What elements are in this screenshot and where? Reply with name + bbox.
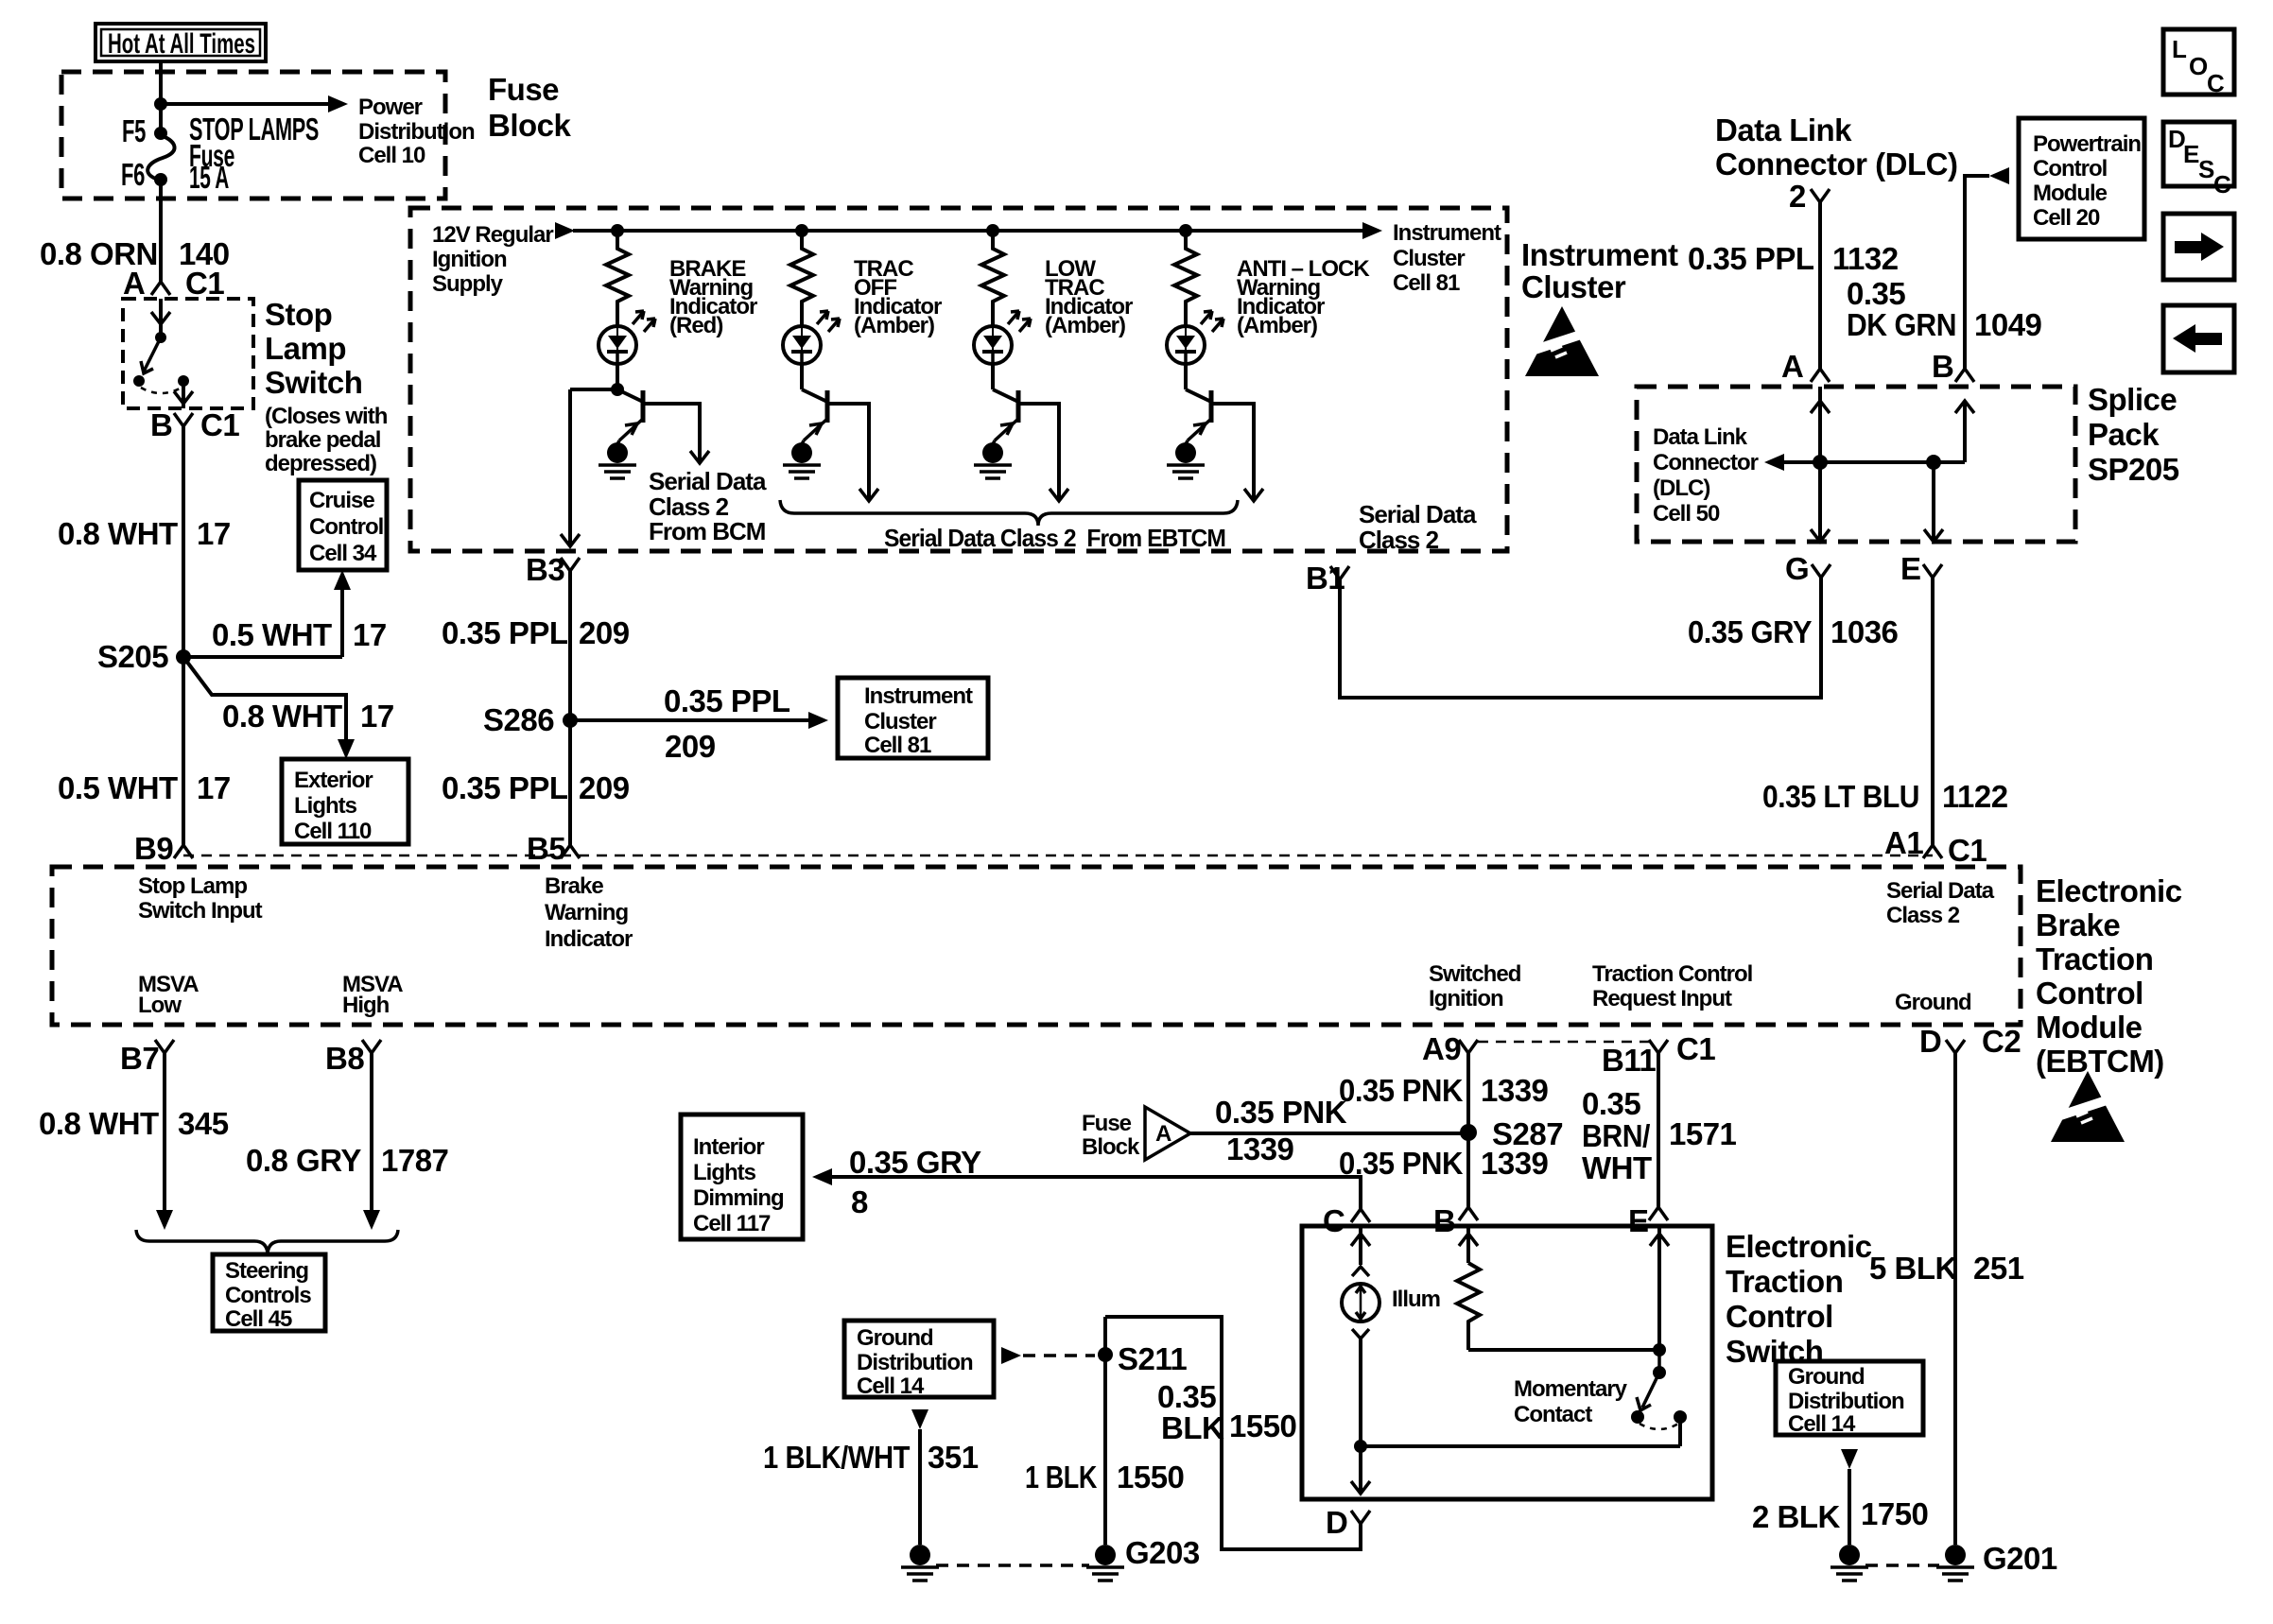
svg-text:0.35 PPL: 0.35 PPL [1688, 241, 1814, 276]
wire junction down to switch pin D [1351, 1446, 1370, 1494]
svg-text:Fuse: Fuse [1082, 1111, 1132, 1136]
label Power Distribution Cell 10 [358, 95, 475, 168]
wire label 0.35 DK GRN 1049 [1847, 276, 2042, 342]
wire lamp down to pin D junction [1359, 1339, 1362, 1446]
svg-text:209: 209 [579, 615, 630, 650]
EBTCM connector dashed line (top) [183, 855, 1933, 857]
wire label 0.35 GRY 8 [849, 1145, 981, 1219]
svg-text:1550: 1550 [1117, 1460, 1184, 1494]
svg-text:D: D [1326, 1505, 1347, 1540]
wire label 0.5 WHT 17 [58, 770, 231, 805]
svg-text:1036: 1036 [1831, 614, 1899, 649]
svg-text:S286: S286 [483, 702, 554, 737]
svg-text:Stop Lamp: Stop Lamp [138, 873, 247, 899]
svg-text:Indicator: Indicator [545, 926, 633, 952]
pin B8 of EBTCM [325, 1040, 381, 1076]
pin 2 of DLC [1789, 179, 1830, 214]
wire switch pin C to Interior Lights Dimming [812, 1168, 1361, 1209]
wire C into switch [1351, 1226, 1370, 1265]
wire resistor bottom to momentary contact [1468, 1348, 1659, 1352]
svg-text:8: 8 [851, 1184, 868, 1219]
ground of Q3 emitter [974, 441, 1012, 478]
svg-text:17: 17 [360, 699, 394, 734]
svg-text:1122: 1122 [1942, 779, 2008, 814]
svg-text:Lights: Lights [294, 793, 357, 819]
svg-text:Steering: Steering [225, 1258, 308, 1284]
svg-text:1787: 1787 [381, 1143, 448, 1178]
fuse block dashed box [61, 72, 445, 199]
svg-text:F5: F5 [122, 113, 146, 148]
node: bus junction R2 [795, 224, 808, 237]
svg-text:C1: C1 [1948, 833, 1987, 868]
svg-text:From BCM: From BCM [649, 517, 765, 545]
light emission arrows of D4 [1201, 311, 1223, 332]
wire D ground to G201 [1953, 1053, 1957, 1545]
light emission arrows of D1 [633, 311, 655, 332]
svg-text:Exterior: Exterior [294, 768, 373, 793]
svg-text:C1: C1 [185, 266, 224, 301]
svg-text:351: 351 [928, 1440, 979, 1475]
svg-text:Control: Control [2036, 976, 2143, 1011]
label MSVA High [342, 972, 403, 1018]
wire E through splice pack [1924, 462, 1943, 542]
svg-text:Class 2: Class 2 [1359, 526, 1439, 554]
svg-text:15 A: 15 A [189, 160, 229, 195]
wire label 0.35 GRY 1036 [1688, 614, 1899, 649]
svg-text:D: D [1919, 1024, 1941, 1059]
svg-text:Electronic: Electronic [1726, 1229, 1872, 1264]
svg-text:2: 2 [1789, 179, 1806, 214]
wire label 0.8 ORN 140 [40, 236, 230, 271]
label Switched Ignition [1429, 961, 1521, 1011]
svg-text:0.8 WHT: 0.8 WHT [39, 1106, 159, 1141]
svg-text:WHT: WHT [1582, 1150, 1652, 1185]
node: junction to Power Distribution [154, 97, 167, 111]
svg-text:(Amber): (Amber) [1045, 313, 1125, 338]
wire label 0.35 BRN/WHT 1571 [1582, 1086, 1737, 1185]
svg-text:1550: 1550 [1229, 1408, 1296, 1443]
svg-text:(DLC): (DLC) [1653, 475, 1709, 501]
svg-text:A: A [1155, 1121, 1171, 1147]
svg-text:Traction: Traction [2036, 942, 2153, 976]
wire contact to pin D [1361, 1444, 1680, 1448]
svg-text:Data Link: Data Link [1653, 424, 1748, 450]
svg-text:Cluster: Cluster [864, 709, 936, 734]
svg-text:Serial Data: Serial Data [1886, 878, 1995, 904]
svg-text:A9: A9 [1422, 1031, 1461, 1066]
transistor Q4 [1186, 389, 1263, 501]
wire label 0.8 WHT 17 [222, 699, 394, 734]
svg-text:SP205: SP205 [2088, 452, 2179, 487]
Cruise Control Cell 34 box [299, 480, 387, 570]
svg-text:Module: Module [2033, 181, 2108, 206]
label MSVA Low [138, 972, 199, 1018]
svg-text:0.35: 0.35 [1847, 276, 1905, 311]
svg-text:(Amber): (Amber) [854, 313, 934, 338]
label STOP LAMPS Fuse 15 A [189, 112, 319, 195]
dashed ground bond to G201 [1865, 1564, 1939, 1567]
svg-text:C: C [1323, 1203, 1345, 1238]
svg-text:Ground: Ground [857, 1325, 933, 1351]
wire LED to transistor Q1 [616, 364, 619, 389]
svg-text:Cell 20: Cell 20 [2033, 205, 2100, 231]
svg-text:Ignition: Ignition [432, 247, 507, 272]
wire S205 to Exterior Lights [183, 657, 355, 759]
wire label 0.5 WHT 17 [212, 617, 387, 652]
pin B5 of EBTCM [527, 831, 580, 866]
svg-text:Distribution: Distribution [358, 119, 475, 145]
wire label 0.8 WHT 345 [39, 1106, 229, 1141]
svg-text:Interior: Interior [693, 1134, 764, 1160]
svg-text:1132: 1132 [1832, 241, 1899, 276]
instrument cluster dashed box [410, 208, 1507, 551]
svg-text:C: C [2207, 69, 2225, 97]
splice pack SP205 dashed box [1637, 387, 2075, 542]
svg-text:Cell 50: Cell 50 [1653, 501, 1720, 527]
LOC reference box [2163, 29, 2234, 97]
svg-text:0.8 WHT: 0.8 WHT [58, 516, 178, 551]
svg-text:Cell 110: Cell 110 [294, 819, 372, 844]
svg-text:S: S [2198, 155, 2214, 183]
svg-text:Instrument: Instrument [864, 683, 973, 709]
svg-text:DK GRN: DK GRN [1847, 307, 1956, 342]
wire label 0.35 PNK 1339 [1339, 1146, 1549, 1181]
svg-text:Switch Input: Switch Input [138, 898, 263, 924]
svg-text:brake pedal: brake pedal [265, 427, 380, 453]
svg-text:Cluster: Cluster [1521, 269, 1626, 304]
pin B11 connector C1 of EBTCM [1602, 1031, 1715, 1078]
pin B1 of instrument cluster [1306, 561, 1349, 596]
svg-text:Supply: Supply [432, 271, 504, 297]
resistor R4 [1174, 231, 1197, 326]
resistor R3 [981, 231, 1004, 326]
wire label 1 BLK 1550 [1025, 1460, 1184, 1494]
svg-text:1 BLK/WHT: 1 BLK/WHT [763, 1440, 910, 1475]
svg-text:(EBTCM): (EBTCM) [2036, 1044, 2164, 1079]
svg-text:Instrument: Instrument [1521, 237, 1678, 272]
node: splice bus junction E [1926, 455, 1941, 470]
wire stop lamp switch B down to EBTCM B9 [182, 426, 185, 845]
brace to Steering Controls [136, 1230, 398, 1253]
fuse F5/F6 STOP LAMPS 15 A [121, 113, 175, 192]
svg-text:0.5 WHT: 0.5 WHT [212, 617, 332, 652]
wire LED to transistor Q4 [1184, 364, 1188, 389]
svg-text:Instrument: Instrument [1393, 220, 1501, 246]
svg-text:Controls: Controls [225, 1283, 311, 1308]
wire label 0.35 PNK 1339 [1339, 1073, 1549, 1108]
svg-text:1750: 1750 [1861, 1496, 1928, 1531]
pin E of splice pack [1900, 551, 1942, 586]
svg-text:345: 345 [178, 1106, 229, 1141]
svg-text:1339: 1339 [1481, 1073, 1549, 1108]
svg-text:Low: Low [138, 993, 182, 1018]
svg-text:Data Link: Data Link [1715, 112, 1852, 147]
svg-text:depressed): depressed) [265, 451, 376, 476]
wire label 0.35 PPL 209 [442, 770, 630, 805]
EBTCM connector dashed line (A9-B11) [1478, 1041, 1649, 1044]
ground of Q4 emitter [1167, 441, 1205, 478]
svg-text:0.35 PNK: 0.35 PNK [1339, 1073, 1464, 1108]
LED indicator lamp D3 [974, 326, 1012, 364]
wire label 0.8 GRY 1787 [246, 1143, 448, 1178]
svg-text:Cell 14: Cell 14 [1788, 1411, 1856, 1437]
svg-text:Lights: Lights [693, 1160, 756, 1185]
pin B of traction control switch [1433, 1203, 1478, 1238]
svg-text:17: 17 [353, 617, 387, 652]
light emission arrows of D2 [817, 311, 840, 332]
label Serial Data Class 2 From BCM [649, 467, 767, 545]
svg-text:Powertrain: Powertrain [2033, 131, 2141, 157]
Powertrain Control Module Cell 20 box [2019, 118, 2144, 239]
indicator label ANTI – LOCK [1237, 256, 1370, 338]
wire label 1 BLK/WHT 351 [763, 1440, 979, 1475]
wire DLC pin 2 down to splice pack A [1818, 202, 1822, 369]
pin A9 of EBTCM [1422, 1031, 1478, 1066]
svg-text:Control: Control [309, 514, 383, 540]
wire E into switch [1650, 1226, 1669, 1350]
label Data Link Connector (DLC) [1715, 112, 1957, 181]
ground G203 [1086, 1535, 1200, 1581]
svg-text:0.35 GRY: 0.35 GRY [1688, 614, 1812, 649]
svg-text:0.35 GRY: 0.35 GRY [849, 1145, 981, 1180]
power feed box "Hot At All Times" [95, 24, 266, 61]
splice S205 [176, 649, 191, 665]
Ground Distribution Cell 14 box (left) [844, 1321, 994, 1399]
svg-text:BLK: BLK [1161, 1410, 1224, 1445]
svg-text:0.8 GRY: 0.8 GRY [246, 1143, 361, 1178]
svg-text:E: E [2183, 140, 2199, 168]
label Brake Warning Indicator [545, 873, 633, 952]
svg-text:BRN/: BRN/ [1582, 1118, 1650, 1153]
wire LED to transistor Q2 [800, 364, 804, 389]
pin A of splice pack [1781, 349, 1830, 384]
wire E down to EBTCM A1 [1931, 578, 1935, 845]
wire arrow to Power Distribution Cell 10 [161, 95, 348, 112]
svg-text:(Closes with: (Closes with [265, 404, 388, 429]
svg-text:G203: G203 [1125, 1535, 1200, 1570]
wire label 0.35 PPL 209 [442, 615, 630, 650]
wire B8 MSVA High to steering controls [363, 1053, 380, 1230]
wire LED to transistor Q3 [991, 364, 995, 389]
Exterior Lights Cell 110 box [282, 759, 408, 844]
svg-text:S205: S205 [97, 639, 168, 674]
svg-text:A: A [123, 266, 145, 301]
momentary contact switch [1631, 1350, 1687, 1446]
wire A through splice pack [1811, 387, 1830, 542]
svg-text:Stop: Stop [265, 297, 332, 332]
LED indicator lamp D4 [1167, 326, 1205, 364]
svg-text:0.35 LT BLU: 0.35 LT BLU [1762, 779, 1919, 814]
node: lamp/contact junction [1354, 1440, 1367, 1453]
svg-text:C2: C2 [1982, 1024, 2021, 1059]
pin B connector C1 below stop lamp switch [150, 407, 239, 442]
svg-text:Cell 34: Cell 34 [309, 541, 377, 566]
forward arrow box [2163, 214, 2234, 280]
wire label 0.35 PPL 1132 [1688, 241, 1899, 276]
splice pack internal bus with arrow [1764, 454, 1965, 471]
svg-text:Cell 10: Cell 10 [358, 143, 425, 168]
transistor Q2 [802, 389, 878, 501]
svg-text:Distribution: Distribution [857, 1350, 973, 1375]
svg-text:S211: S211 [1118, 1341, 1187, 1376]
svg-text:Serial Data: Serial Data [1359, 500, 1477, 528]
svg-text:1339: 1339 [1481, 1146, 1549, 1181]
svg-text:Serial Data: Serial Data [649, 467, 767, 495]
svg-text:Ground: Ground [1895, 990, 1971, 1015]
splice pack label [2088, 382, 2179, 487]
svg-text:O: O [2189, 52, 2208, 80]
label Serial Data Class 2 (EBTCM) [1886, 878, 1995, 928]
svg-text:B11: B11 [1602, 1043, 1656, 1078]
svg-text:Ignition: Ignition [1429, 986, 1503, 1011]
svg-text:Request Input: Request Input [1592, 986, 1732, 1011]
EBTCM title [2036, 873, 2182, 1079]
svg-text:L: L [2172, 35, 2187, 63]
node: bus junction R1 [611, 224, 624, 237]
svg-text:12V Regular: 12V Regular [432, 222, 553, 248]
pin C of traction control switch [1323, 1203, 1370, 1238]
pin A connector C1 of stop lamp switch [123, 266, 224, 301]
svg-text:Brake: Brake [2036, 907, 2120, 942]
indicator label LOW [1045, 256, 1133, 338]
svg-text:1571: 1571 [1669, 1116, 1737, 1151]
svg-text:Serial Data Class 2 From EBTC: Serial Data Class 2 From EBTCM [884, 524, 1225, 552]
Instrument Cluster Cell 81 box [838, 678, 988, 758]
svg-text:209: 209 [665, 729, 716, 764]
splice S287 [1460, 1124, 1477, 1141]
fuse block source symbol A [1082, 1107, 1190, 1160]
svg-text:1 BLK: 1 BLK [1025, 1460, 1098, 1494]
svg-text:Brake: Brake [545, 873, 603, 899]
pin B9 of EBTCM [134, 831, 193, 866]
DESC reference box [2163, 122, 2234, 199]
svg-text:E: E [1900, 551, 1921, 586]
svg-text:Cluster: Cluster [1393, 246, 1465, 271]
svg-text:Cell 45: Cell 45 [225, 1306, 292, 1332]
wire label 2 BLK 1750 [1752, 1496, 1928, 1534]
svg-text:17: 17 [197, 770, 231, 805]
svg-text:Control: Control [1726, 1299, 1833, 1334]
wire label 0.8 WHT 17 [58, 516, 231, 551]
dashed link Ground Distribution to S211 [1001, 1347, 1095, 1364]
LED indicator lamp D2 [783, 326, 821, 364]
wire label 0.35 PNK 1339 [1215, 1095, 1347, 1166]
stop lamp switch dashed box [123, 299, 253, 408]
svg-text:Lamp: Lamp [265, 331, 346, 366]
label Momentary Contact [1514, 1376, 1628, 1427]
svg-text:Warning: Warning [545, 900, 628, 925]
svg-text:C: C [2213, 170, 2231, 199]
svg-text:Cruise: Cruise [309, 488, 374, 513]
wire B7 MSVA Low to steering controls [156, 1053, 173, 1230]
svg-text:E: E [1628, 1203, 1649, 1238]
svg-text:1339: 1339 [1226, 1132, 1294, 1166]
ground G201 [1936, 1541, 2057, 1581]
label Stop Lamp Switch Input [138, 873, 263, 924]
svg-text:B: B [1433, 1203, 1455, 1238]
svg-text:B: B [150, 407, 172, 442]
svg-text:Contact: Contact [1514, 1402, 1592, 1427]
svg-text:Traction Control: Traction Control [1592, 961, 1752, 987]
transistor Q1 [617, 389, 709, 463]
brace Serial Data Class 2 From EBTCM [780, 500, 1238, 526]
svg-text:(Red): (Red) [669, 313, 722, 338]
svg-text:(Amber): (Amber) [1237, 313, 1317, 338]
label Instrument Cluster (right) [1521, 237, 1678, 304]
12V ignition supply bus wire [555, 222, 1382, 239]
ground of Q1 emitter [599, 441, 636, 478]
svg-text:Pack: Pack [2088, 417, 2160, 452]
svg-text:0.35 PPL: 0.35 PPL [664, 683, 790, 718]
svg-text:F6: F6 [121, 157, 145, 192]
svg-text:1049: 1049 [1974, 307, 2042, 342]
svg-text:2 BLK: 2 BLK [1752, 1499, 1841, 1534]
svg-text:B3: B3 [526, 552, 564, 587]
svg-text:Control: Control [2033, 156, 2107, 181]
svg-text:B7: B7 [120, 1041, 159, 1076]
svg-text:0.8 WHT: 0.8 WHT [222, 699, 342, 734]
node: junction to B3 output [611, 383, 624, 396]
svg-text:209: 209 [579, 770, 630, 805]
svg-text:Dimming: Dimming [693, 1185, 784, 1211]
svg-text:Switch: Switch [265, 365, 362, 400]
svg-text:Splice: Splice [2088, 382, 2177, 417]
wire label 5 BLK 251 [1869, 1251, 2024, 1286]
wire fuse block A to S287 [1190, 1132, 1468, 1135]
label Instrument Cluster Cell 81 [1393, 220, 1501, 296]
pin B3 of instrument cluster [526, 552, 580, 587]
transistor Q3 [993, 389, 1068, 501]
svg-text:Electronic: Electronic [2036, 873, 2182, 908]
svg-text:0.35 PNK: 0.35 PNK [1215, 1095, 1347, 1130]
svg-text:0.5 WHT: 0.5 WHT [58, 770, 178, 805]
stop lamp switch contacts and arm [133, 299, 193, 408]
svg-text:0.35: 0.35 [1157, 1379, 1216, 1414]
svg-text:Cell 117: Cell 117 [693, 1211, 771, 1236]
label Data Link Connector (DLC) Cell 50 [1653, 424, 1759, 527]
svg-text:B5: B5 [527, 831, 565, 866]
fuse block label [488, 72, 572, 143]
ESD sensitive symbol (EBTCM) [2043, 1071, 2125, 1142]
indicator label TRAC [854, 256, 942, 338]
wire S211 down to G203 [1103, 1317, 1107, 1545]
wire B into splice pack [1955, 401, 1974, 462]
splice S211 [1098, 1347, 1113, 1362]
svg-text:Fuse: Fuse [488, 72, 559, 107]
wire S205 to Cruise Control [183, 570, 351, 657]
svg-text:Traction: Traction [1726, 1264, 1843, 1299]
svg-text:Momentary: Momentary [1514, 1376, 1628, 1402]
resistor R1 [606, 231, 629, 326]
wire from Hot At All Times into fuse block [159, 61, 163, 133]
wire splice pack B up to Powertrain Control Module [1965, 167, 2009, 369]
pin D of traction control switch [1326, 1505, 1370, 1540]
ground stub of Ground Distribution Cell 14 [901, 1409, 939, 1581]
resistor R5 inside switch [1457, 1263, 1480, 1350]
label 12V Regular Ignition Supply [432, 222, 553, 297]
svg-text:Distribution: Distribution [1788, 1389, 1904, 1414]
svg-text:B: B [1932, 349, 1953, 384]
wire B3 output inside cluster [561, 389, 617, 546]
stop lamp switch title [265, 297, 362, 400]
wire switch D to splice S211 [1105, 1317, 1361, 1549]
wire A9 down through S287 to switch pin B [1466, 1053, 1470, 1207]
svg-text:High: High [342, 993, 390, 1018]
wire S286 down to EBTCM B5 [568, 720, 572, 845]
svg-text:Power: Power [358, 95, 423, 120]
wire B into switch to resistor [1459, 1226, 1478, 1263]
svg-text:Block: Block [488, 108, 572, 143]
